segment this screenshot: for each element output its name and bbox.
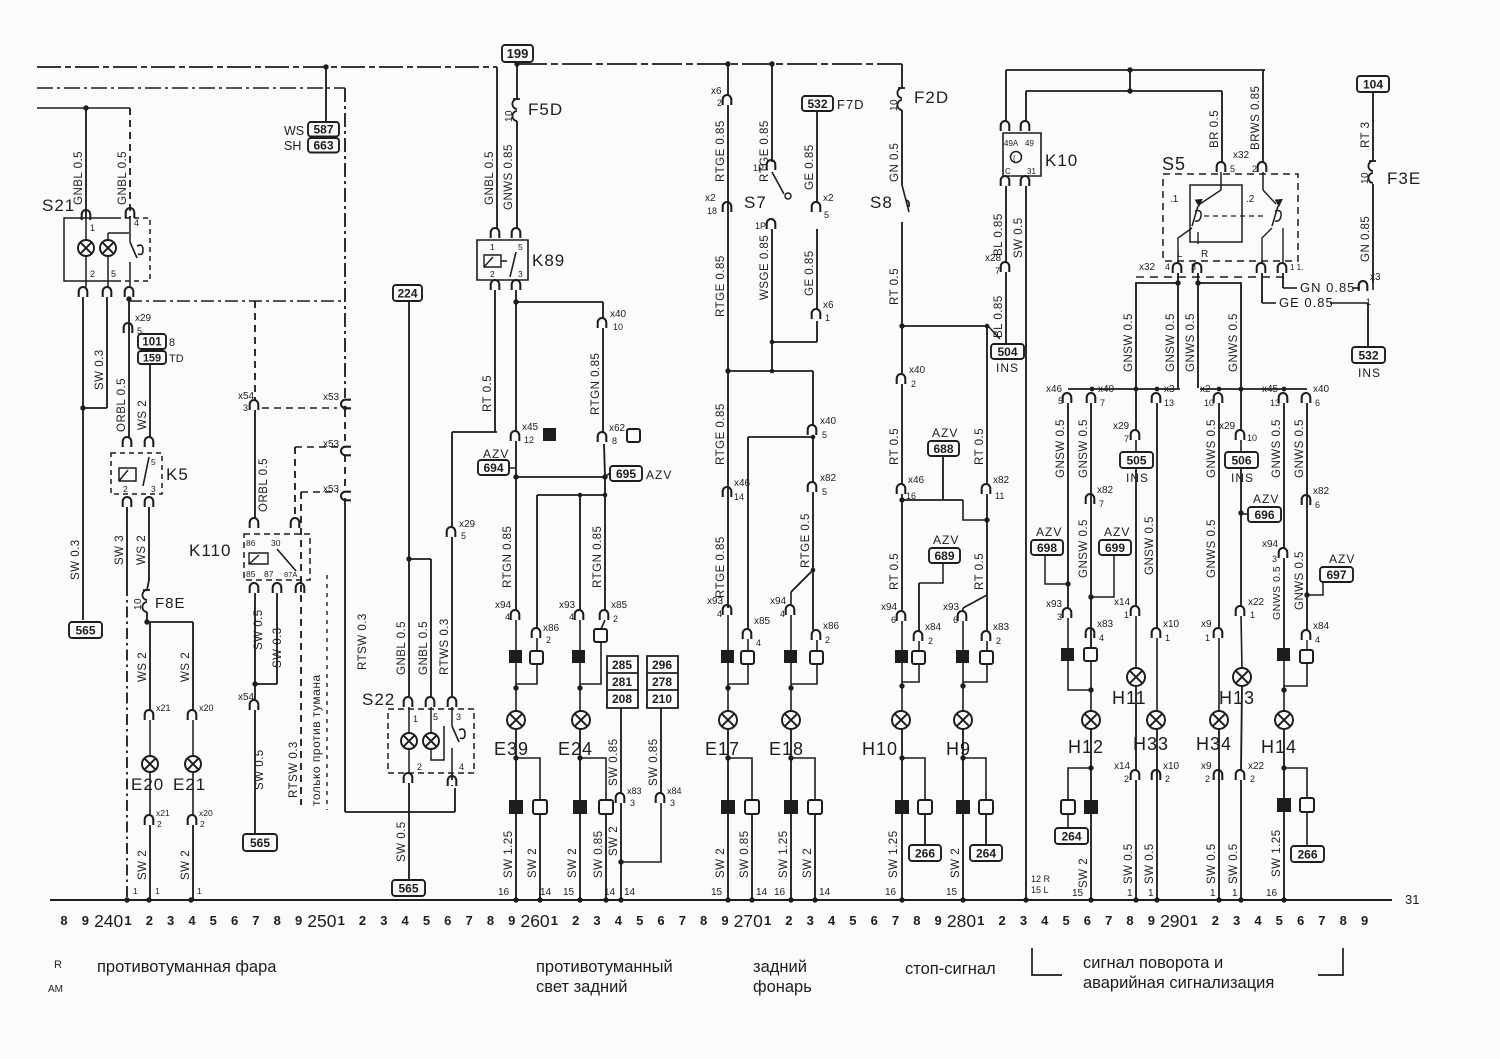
wire branch E24 white square bbox=[580, 758, 606, 800]
wire bbox=[1283, 690, 1285, 711]
wire 210 merge bbox=[621, 803, 661, 862]
svg-text:свет задний: свет задний bbox=[536, 978, 628, 996]
junction node bbox=[323, 64, 328, 69]
node H11 ground bbox=[1133, 897, 1138, 902]
svg-text:S21: S21 bbox=[42, 196, 75, 215]
wire jog H9 bbox=[963, 595, 987, 608]
square black H14 bbox=[1277, 648, 1290, 661]
wire bbox=[1262, 302, 1276, 304]
svg-text:SW 0.85: SW 0.85 bbox=[608, 738, 620, 786]
svg-text:14: 14 bbox=[734, 492, 744, 502]
wire GNSW H12 side bbox=[1090, 403, 1092, 648]
svg-text:RTSW 0.3: RTSW 0.3 bbox=[357, 613, 369, 670]
svg-text:8: 8 bbox=[1126, 913, 1133, 928]
node left rail tap bbox=[1090, 387, 1095, 392]
svg-text:x40: x40 bbox=[820, 416, 837, 427]
wire bbox=[129, 262, 131, 287]
wire bbox=[1372, 283, 1374, 290]
wire bbox=[1306, 812, 1308, 846]
box 699 bbox=[1099, 540, 1131, 555]
svg-text:2: 2 bbox=[1212, 913, 1219, 928]
box 565 middle bbox=[243, 834, 277, 851]
svg-text:RTGE 0.85: RTGE 0.85 bbox=[715, 255, 727, 317]
svg-text:C: C bbox=[1005, 167, 1011, 176]
svg-text:6: 6 bbox=[1315, 398, 1320, 408]
svg-text:SH: SH bbox=[284, 139, 301, 153]
symbol arrow right bbox=[1276, 200, 1283, 207]
svg-text:x28: x28 bbox=[985, 253, 1002, 264]
node at 695 bbox=[602, 474, 607, 479]
pin K5 bottom left connector bbox=[123, 497, 132, 507]
pin K110-87 connector bbox=[273, 583, 282, 593]
fuse F2D bbox=[897, 88, 905, 110]
wire S22 internal link bbox=[431, 726, 444, 760]
svg-text:GNSW 0.5: GNSW 0.5 bbox=[1055, 419, 1067, 478]
svg-text:AZV: AZV bbox=[1253, 492, 1279, 506]
connector housing square X45 bbox=[543, 428, 556, 441]
svg-text:INS: INS bbox=[1358, 366, 1381, 380]
wire SW 2 E18 branch bbox=[814, 814, 816, 900]
svg-text:x40: x40 bbox=[610, 309, 627, 320]
wire dashed note bracket bbox=[326, 575, 328, 810]
wire bbox=[85, 218, 87, 240]
wire branch E17 white square bbox=[728, 758, 752, 800]
node E18 split bbox=[811, 568, 816, 573]
wire bbox=[901, 621, 903, 650]
svg-text:RTGN 0.85: RTGN 0.85 bbox=[502, 526, 514, 588]
symbol arrow left bbox=[1196, 200, 1203, 207]
relay K110 outline bbox=[244, 534, 310, 580]
wire to lamp E21 bbox=[192, 622, 194, 710]
svg-text:SW 1.25: SW 1.25 bbox=[888, 830, 900, 878]
switch K110 blade bbox=[277, 549, 296, 571]
svg-text:9: 9 bbox=[721, 913, 728, 928]
node E18 ground bbox=[788, 897, 793, 902]
node split to S22 lamps bbox=[406, 556, 411, 561]
node H10 lamp feed bbox=[899, 683, 904, 688]
svg-text:6: 6 bbox=[231, 913, 238, 928]
svg-text:E39: E39 bbox=[494, 739, 529, 759]
pin K10-31 connector bbox=[1021, 176, 1030, 186]
svg-text:2: 2 bbox=[490, 269, 495, 279]
svg-text:GN 0.85: GN 0.85 bbox=[1300, 280, 1355, 295]
svg-text:12: 12 bbox=[524, 435, 534, 445]
square black E18 lower bbox=[784, 800, 798, 814]
svg-text:x45: x45 bbox=[522, 422, 539, 433]
connector X29 pin5 S22 bbox=[447, 527, 456, 537]
wire from S21 pin5 bbox=[106, 297, 108, 408]
pin K110-30 connector bbox=[291, 518, 300, 528]
wire bbox=[1156, 638, 1158, 711]
wire to X86 bbox=[536, 495, 538, 628]
svg-text:x82: x82 bbox=[820, 473, 837, 484]
box S21 outline solid part bbox=[64, 218, 116, 281]
wire H10 feed bbox=[901, 326, 903, 374]
svg-text:x93: x93 bbox=[707, 596, 724, 607]
connector X53 middle bbox=[341, 447, 351, 456]
wire branch H9 white square bbox=[963, 758, 986, 800]
lamp E18 bbox=[782, 711, 800, 729]
svg-text:2: 2 bbox=[123, 484, 128, 494]
wire up to S22 pin4 connector bbox=[454, 788, 456, 812]
connector X2 pin18 bbox=[723, 202, 732, 212]
svg-text:587: 587 bbox=[313, 123, 333, 137]
wire top feed line segment B (199 to F2D) bbox=[517, 63, 902, 65]
wire SW 2 E39 branch bbox=[539, 814, 541, 900]
svg-text:16: 16 bbox=[885, 887, 897, 898]
wire branch H10 white square bbox=[902, 758, 925, 800]
wire H10 to ground bus bbox=[901, 729, 903, 900]
svg-text:x53: x53 bbox=[323, 439, 340, 450]
wire to merge bbox=[620, 803, 622, 862]
box S5 inner bbox=[1190, 185, 1242, 242]
svg-text:49A: 49A bbox=[1004, 139, 1019, 148]
pin S21-7 connector bbox=[125, 287, 134, 297]
wire H13 feed bbox=[1240, 468, 1242, 606]
svg-text:только против тумана: только против тумана bbox=[309, 674, 323, 806]
box 688 bbox=[928, 441, 959, 456]
wire dashed RTSW 0.3 from K110-87A bbox=[300, 595, 302, 805]
square black H9 bbox=[956, 650, 969, 663]
svg-text:S7: S7 bbox=[744, 193, 767, 212]
svg-text:504: 504 bbox=[997, 345, 1017, 359]
wire 695 box link bbox=[605, 473, 610, 477]
wire jumper bbox=[1129, 70, 1131, 91]
node merge K110 outputs bbox=[252, 681, 257, 686]
wire H9 side join bbox=[963, 664, 987, 682]
wire S22 lamp2 top lead bbox=[430, 707, 432, 733]
svg-text:5: 5 bbox=[636, 913, 643, 928]
svg-text:663: 663 bbox=[313, 139, 333, 153]
square black E24 bbox=[572, 650, 585, 663]
svg-text:S8: S8 bbox=[870, 193, 893, 212]
connector X82 pin5 bbox=[808, 482, 817, 492]
pin S21-4 connector bbox=[126, 208, 135, 218]
square black H12 bbox=[1061, 648, 1074, 661]
svg-text:15: 15 bbox=[563, 887, 575, 898]
wire S21 internal crossbar bbox=[108, 232, 129, 234]
connector X14 pin1 bbox=[1131, 606, 1140, 616]
box 565 left bbox=[69, 622, 102, 638]
svg-text:GNSW 0.5: GNSW 0.5 bbox=[1165, 313, 1177, 372]
svg-text:S22: S22 bbox=[362, 690, 395, 709]
svg-text:2: 2 bbox=[928, 636, 933, 646]
svg-text:x14: x14 bbox=[1114, 761, 1131, 772]
svg-text:WS 2: WS 2 bbox=[137, 400, 149, 430]
connector X93 pin4 E24 bbox=[575, 610, 584, 620]
connector X3 pin13 bbox=[1152, 393, 1161, 403]
svg-text:АМ: АМ bbox=[48, 984, 63, 995]
connector X94 pin6 H10 bbox=[897, 611, 906, 621]
svg-text:5: 5 bbox=[461, 531, 466, 541]
svg-text:GNBL 0.5: GNBL 0.5 bbox=[484, 151, 496, 205]
box 532 F7D bbox=[802, 96, 833, 111]
square black E17 lower bbox=[721, 800, 735, 814]
svg-text:4: 4 bbox=[188, 913, 196, 928]
svg-text:SW 0.3: SW 0.3 bbox=[272, 627, 284, 668]
svg-text:AZV: AZV bbox=[1104, 525, 1130, 539]
square white E17 lower bbox=[745, 800, 759, 814]
wire dashed down right of K110 bbox=[300, 492, 302, 585]
box 224 bbox=[393, 285, 422, 301]
connector X93 pin3 H12 bbox=[1063, 608, 1072, 618]
wire SW 0.5 below K110 bbox=[254, 593, 256, 700]
box stack 296 278 210 bbox=[647, 656, 678, 708]
wire GNWS H14 main bbox=[1283, 403, 1285, 548]
svg-text:199: 199 bbox=[507, 46, 529, 61]
svg-text:101: 101 bbox=[142, 337, 162, 349]
svg-text:5: 5 bbox=[824, 210, 829, 220]
connector X53 upper bbox=[341, 400, 351, 409]
connector X82 pin7 bbox=[1086, 494, 1095, 504]
svg-text:5: 5 bbox=[518, 242, 523, 252]
pin S21-5 connector bbox=[103, 287, 112, 297]
pin K89-5 connector bbox=[512, 228, 521, 238]
svg-text:x53: x53 bbox=[323, 392, 340, 403]
svg-text:1: 1 bbox=[1127, 888, 1133, 899]
svg-text:1: 1 bbox=[413, 714, 418, 724]
node E17 below split bbox=[725, 755, 730, 760]
wire SW 3 below K5 bbox=[126, 507, 128, 585]
svg-text:2: 2 bbox=[146, 913, 153, 928]
svg-text:GNSW 0.5: GNSW 0.5 bbox=[1123, 313, 1135, 372]
node H14 ground bbox=[1281, 897, 1286, 902]
box 504 bbox=[991, 344, 1024, 359]
svg-text:x93: x93 bbox=[1046, 599, 1063, 610]
wire S21 switch lead bbox=[129, 218, 131, 242]
node H12 below split bbox=[1088, 765, 1093, 770]
svg-text:7: 7 bbox=[679, 913, 686, 928]
wire bbox=[149, 720, 151, 756]
node K10 ground bbox=[1023, 897, 1028, 902]
svg-text:фонарь: фонарь bbox=[753, 978, 812, 996]
svg-text:GNWS 0.5: GNWS 0.5 bbox=[1294, 551, 1306, 610]
box 696 bbox=[1248, 507, 1281, 522]
svg-text:E18: E18 bbox=[769, 739, 804, 759]
svg-text:5: 5 bbox=[1230, 164, 1235, 174]
svg-text:SW 3: SW 3 bbox=[114, 535, 126, 565]
svg-text:250: 250 bbox=[307, 911, 336, 931]
svg-text:104: 104 bbox=[1363, 77, 1383, 91]
pin K89-3 connector bbox=[512, 280, 521, 290]
wire bbox=[1135, 440, 1137, 452]
node merge bbox=[80, 405, 85, 410]
svg-text:4: 4 bbox=[615, 913, 623, 928]
svg-text:1: 1 bbox=[1205, 633, 1210, 643]
svg-text:GNBL 0.5: GNBL 0.5 bbox=[117, 151, 129, 205]
svg-text:13: 13 bbox=[1164, 398, 1174, 408]
svg-text:SW 0.5: SW 0.5 bbox=[396, 821, 408, 862]
svg-text:1: 1 bbox=[90, 223, 95, 233]
svg-text:x85: x85 bbox=[611, 600, 628, 611]
connector X83 pin4 H12 bbox=[1086, 628, 1095, 638]
svg-text:x32: x32 bbox=[1233, 150, 1250, 161]
wire SW 2 E20 to bus bbox=[149, 825, 151, 900]
wire S21 lamp1 leads bbox=[85, 256, 87, 287]
svg-text:x10: x10 bbox=[1163, 619, 1180, 630]
svg-text:F8E: F8E bbox=[155, 595, 186, 612]
svg-text:x29: x29 bbox=[135, 313, 152, 324]
node RTGN split bbox=[513, 299, 518, 304]
svg-text:15 L: 15 L bbox=[1031, 885, 1049, 895]
svg-text:H9: H9 bbox=[946, 739, 971, 759]
svg-text:1: 1 bbox=[338, 913, 345, 928]
connector X20 E21 bbox=[188, 710, 197, 720]
svg-text:8: 8 bbox=[612, 436, 617, 446]
svg-text:BL 0.85: BL 0.85 bbox=[993, 213, 1005, 256]
wire bbox=[962, 663, 964, 686]
wire WS 2 from box 159 to K5 bbox=[149, 364, 151, 437]
svg-text:3: 3 bbox=[1020, 913, 1027, 928]
svg-text:4: 4 bbox=[402, 913, 410, 928]
switch S5 blade left bbox=[1192, 206, 1201, 226]
node S5 out L bbox=[1175, 280, 1180, 285]
lamp E20 bbox=[142, 756, 158, 772]
svg-text:5: 5 bbox=[1058, 396, 1063, 406]
wire GNWS to right rail bbox=[1198, 283, 1241, 388]
connector X40 pin7 bbox=[1087, 393, 1096, 403]
pin K110-85 connector bbox=[250, 583, 259, 593]
svg-text:31: 31 bbox=[1027, 167, 1036, 176]
svg-text:694: 694 bbox=[483, 461, 503, 475]
svg-text:x40: x40 bbox=[1313, 384, 1330, 395]
wire below H34 bbox=[1218, 729, 1220, 900]
svg-text:RTWS 0.3: RTWS 0.3 bbox=[439, 618, 451, 675]
wire GE to 532 bbox=[1330, 302, 1368, 304]
svg-text:16: 16 bbox=[1266, 888, 1278, 899]
lamp S22 left bulb bbox=[401, 733, 417, 749]
wire branch H14 white square bbox=[1284, 768, 1307, 798]
node 697 tap bbox=[1304, 592, 1309, 597]
svg-text:GE 0.85: GE 0.85 bbox=[1279, 295, 1334, 310]
svg-text:3: 3 bbox=[630, 798, 635, 808]
svg-text:SW 0.5: SW 0.5 bbox=[1123, 843, 1135, 884]
connector X32 pin3 bbox=[1193, 263, 1202, 273]
node E20 ground bbox=[146, 897, 151, 902]
wire bbox=[790, 663, 792, 688]
svg-text:85: 85 bbox=[246, 569, 256, 579]
node junction S21 feed bbox=[83, 105, 88, 110]
svg-text:7: 7 bbox=[995, 266, 1000, 276]
svg-text:4: 4 bbox=[459, 762, 464, 772]
box 506 bbox=[1225, 452, 1258, 468]
svg-text:SW 1.25: SW 1.25 bbox=[503, 830, 515, 878]
wire GNSW H33 bbox=[1156, 403, 1158, 628]
svg-text:INS: INS bbox=[1231, 471, 1254, 485]
wire bbox=[1283, 287, 1297, 289]
svg-text:1: 1 bbox=[490, 242, 495, 252]
node left rail tap bbox=[1134, 387, 1139, 392]
node H34 ground bbox=[1216, 897, 1221, 902]
svg-text:GN 0.5: GN 0.5 bbox=[889, 143, 901, 182]
svg-text:2: 2 bbox=[1250, 774, 1255, 784]
svg-text:x54: x54 bbox=[238, 692, 255, 703]
wire GNBL to S22 pin1 bbox=[408, 559, 410, 697]
svg-text:1P: 1P bbox=[755, 221, 766, 231]
wire bbox=[601, 620, 605, 629]
wire GNBL to S22 pin5 bbox=[430, 559, 432, 697]
svg-text:2: 2 bbox=[785, 913, 792, 928]
svg-text:K10: K10 bbox=[1045, 151, 1078, 170]
svg-text:270: 270 bbox=[734, 911, 763, 931]
wire 698 link bbox=[1045, 555, 1068, 584]
svg-text:E21: E21 bbox=[173, 775, 206, 794]
wire bbox=[1218, 638, 1220, 711]
wire dash-dot from bus line2 down bbox=[344, 88, 346, 398]
wire S21 lamp2 leads bbox=[107, 256, 109, 287]
svg-text:210: 210 bbox=[652, 692, 672, 706]
node H14 lamp feed bbox=[1281, 687, 1286, 692]
wire dashed X53 to K110-87A path bbox=[301, 491, 338, 493]
svg-text:1 1.: 1 1. bbox=[1290, 263, 1303, 272]
svg-text:5: 5 bbox=[1276, 913, 1283, 928]
connector X83 pin3 bbox=[616, 793, 625, 803]
wire bbox=[579, 620, 581, 650]
node 699 tap bbox=[1088, 594, 1093, 599]
svg-text:1: 1 bbox=[825, 313, 830, 323]
wire S21 pin1 feed bbox=[85, 108, 87, 218]
svg-text:281: 281 bbox=[612, 675, 632, 689]
svg-text:(: ( bbox=[1013, 154, 1016, 163]
connector X40 pin5 bbox=[808, 425, 817, 435]
relay K89 outline bbox=[477, 240, 528, 280]
svg-text:K89: K89 bbox=[532, 251, 565, 270]
wire GNBL 0.5 drop to K89 pin 1 bbox=[496, 67, 498, 228]
wire S22 switch lead bbox=[451, 707, 453, 726]
wire SW 0.3 to box 565 bbox=[82, 297, 84, 620]
wire RTGE 0.5 E18 bbox=[812, 492, 814, 570]
pin S22-1 connector bbox=[404, 697, 413, 707]
svg-text:5: 5 bbox=[822, 430, 827, 440]
svg-text:INS: INS bbox=[1126, 471, 1149, 485]
svg-text:4: 4 bbox=[1041, 913, 1049, 928]
wire GNSW H12 main bbox=[1067, 403, 1069, 608]
svg-text:BRWS 0.85: BRWS 0.85 bbox=[1250, 86, 1262, 150]
node 208-210 merge bbox=[618, 859, 623, 864]
wire x62 to 695 node bbox=[604, 444, 605, 477]
wire branch E39 white square bbox=[516, 758, 540, 800]
svg-text:GNSW 0.5: GNSW 0.5 bbox=[1144, 516, 1156, 575]
wire H14 main lower bbox=[1283, 558, 1285, 648]
wire bbox=[579, 663, 581, 688]
wire merge S21 outputs bbox=[83, 407, 107, 409]
svg-text:BR 0.5: BR 0.5 bbox=[1209, 110, 1221, 148]
wire E39 to ground bus bbox=[515, 729, 517, 900]
node E24 ground bbox=[577, 897, 582, 902]
svg-text:x94: x94 bbox=[881, 602, 898, 613]
node left rail tap bbox=[1155, 387, 1160, 392]
wire 688 box stub bbox=[942, 456, 944, 500]
svg-text:7: 7 bbox=[466, 913, 473, 928]
square white E24 side bbox=[594, 629, 607, 642]
svg-text:264: 264 bbox=[1061, 829, 1081, 843]
wire S5 internal left bbox=[1220, 172, 1222, 190]
wire below H33 bbox=[1156, 729, 1158, 900]
wire branch E18 white square bbox=[791, 758, 815, 800]
svg-text:1: 1 bbox=[1232, 888, 1238, 899]
svg-text:5: 5 bbox=[423, 913, 430, 928]
svg-text:x3: x3 bbox=[1164, 384, 1175, 395]
square black H10 bbox=[895, 650, 908, 663]
svg-text:x40: x40 bbox=[909, 365, 926, 376]
svg-text:x86: x86 bbox=[823, 621, 840, 632]
node junction under box 199 bbox=[514, 61, 519, 66]
svg-text:8: 8 bbox=[487, 913, 494, 928]
connector X21 E20 bbox=[145, 710, 154, 720]
wire branch to BL bbox=[902, 325, 988, 327]
svg-text:10: 10 bbox=[1204, 398, 1214, 408]
svg-text:7: 7 bbox=[1318, 913, 1325, 928]
